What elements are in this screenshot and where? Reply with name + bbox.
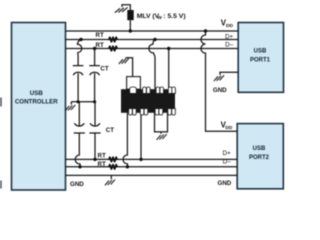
svg-text:GND: GND bbox=[70, 181, 84, 188]
svg-text:MLV (V: MLV (V bbox=[137, 13, 160, 20]
svg-text:RT: RT bbox=[98, 152, 106, 159]
svg-text:D–: D– bbox=[223, 159, 232, 166]
svg-text:RT: RT bbox=[98, 161, 106, 168]
svg-text:RT: RT bbox=[96, 32, 104, 39]
svg-text:D–: D– bbox=[225, 41, 234, 48]
svg-text:RT: RT bbox=[96, 42, 104, 49]
svg-text:GND: GND bbox=[218, 180, 232, 187]
svg-text:D+: D+ bbox=[225, 33, 234, 40]
svg-text:DD: DD bbox=[226, 23, 233, 29]
svg-text:: 5.5 V): : 5.5 V) bbox=[163, 13, 185, 20]
svg-text:PORT1: PORT1 bbox=[250, 57, 271, 63]
svg-text:USB: USB bbox=[254, 49, 267, 55]
svg-text:DD: DD bbox=[225, 125, 232, 131]
svg-text:D+: D+ bbox=[222, 150, 231, 157]
svg-text:CT: CT bbox=[100, 66, 108, 73]
svg-text:USB: USB bbox=[253, 146, 266, 152]
svg-text:PORT2: PORT2 bbox=[249, 155, 270, 161]
svg-text:USB: USB bbox=[30, 90, 44, 97]
svg-text:CONTROLLER: CONTROLLER bbox=[15, 99, 58, 106]
svg-text:GND: GND bbox=[213, 87, 227, 94]
svg-text:CT: CT bbox=[106, 127, 114, 134]
svg-text:W: W bbox=[158, 15, 163, 20]
